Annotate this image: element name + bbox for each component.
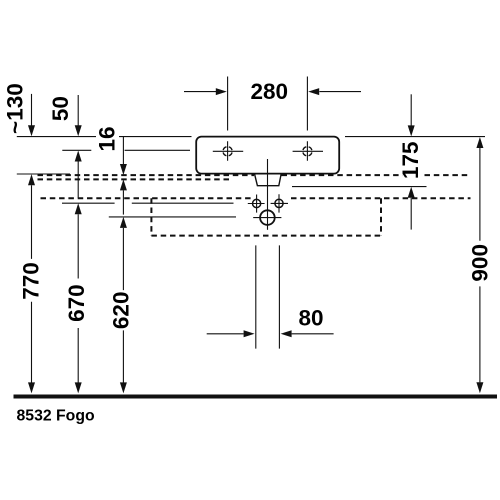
drain outlet circle bbox=[260, 210, 275, 225]
vertical centerline bbox=[267, 159, 269, 230]
670 reference line (small holes level) bbox=[62, 202, 234, 204]
sink bottom extension line left bbox=[17, 173, 70, 175]
dim 80 extension lines bbox=[256, 245, 280, 348]
dim 175 shaft top bbox=[410, 94, 412, 125]
dashed console rectangle bottom edge bbox=[151, 235, 381, 237]
right fixing hole circle bbox=[275, 199, 283, 207]
arrowhead ~130 down bbox=[28, 125, 35, 136]
left tap hole crosshair bbox=[213, 141, 243, 161]
right fixing hole crosshair bbox=[271, 194, 288, 212]
svg-text:80: 80 bbox=[298, 306, 323, 331]
drain stub trapezoid bbox=[255, 174, 282, 186]
dim 16 shaft (down) bbox=[122, 137, 124, 165]
svg-text:620: 620 bbox=[109, 292, 134, 330]
arrowhead ~130 up / 770 top bbox=[28, 174, 35, 185]
top reference line right segment bbox=[345, 136, 485, 138]
svg-text:16: 16 bbox=[95, 126, 120, 151]
svg-text:50: 50 bbox=[48, 96, 73, 121]
svg-text:280: 280 bbox=[251, 79, 289, 104]
arrowhead 50 down bbox=[75, 125, 82, 136]
svg-text:~130: ~130 bbox=[3, 83, 28, 134]
svg-text:8532 Fogo: 8532 Fogo bbox=[17, 408, 95, 425]
arrowhead 175 down bbox=[408, 125, 415, 136]
dim 280 extension lines bbox=[228, 77, 308, 131]
arrowhead 670 up bbox=[75, 203, 82, 214]
dim 900 shaft bbox=[479, 148, 481, 382]
arrowhead 80 left-side (points right) bbox=[244, 330, 255, 337]
arrowhead 900 down bbox=[476, 382, 483, 393]
dim ~130 shaft top bbox=[31, 94, 33, 126]
dashed console rectangle left edge bbox=[150, 198, 152, 235]
svg-text:175: 175 bbox=[398, 141, 423, 179]
left fixing hole crosshair bbox=[248, 195, 265, 213]
dashed countertop top line bbox=[38, 174, 471, 176]
dim 175 lower shaft bbox=[410, 198, 412, 230]
dashed console rectangle right edge bbox=[380, 198, 382, 235]
svg-text:770: 770 bbox=[18, 262, 43, 300]
left fixing hole circle bbox=[253, 199, 261, 207]
dashed countertop bottom line bbox=[38, 178, 230, 180]
dim 620 shaft bbox=[122, 228, 124, 383]
washbasin body outline bbox=[196, 137, 339, 174]
arrowhead 16 up bbox=[120, 179, 127, 190]
dim 16 shaft (up, to drain ref) bbox=[122, 190, 124, 214]
svg-text:670: 670 bbox=[64, 284, 89, 322]
arrowhead 175 up bbox=[408, 187, 415, 198]
arrowhead 620 up bbox=[120, 217, 127, 228]
dim 80 arrow lines bbox=[207, 333, 334, 335]
arrowhead 280 right (points left) bbox=[308, 88, 319, 95]
top reference line (rim level) left segments bbox=[17, 136, 192, 138]
floor line bbox=[14, 395, 498, 399]
tap-hole level reference line segments bbox=[62, 149, 190, 151]
dim 670 shaft bbox=[77, 214, 79, 382]
arrowhead 670 down bbox=[75, 382, 82, 393]
dim ~130/770 shared shaft bbox=[31, 185, 33, 382]
dim 280 arrow lines bbox=[184, 91, 361, 93]
arrowhead 280 left (points right) bbox=[216, 88, 227, 95]
arrowhead 80 right-side (points left) bbox=[281, 330, 292, 337]
arrowhead 50 up bbox=[75, 151, 82, 162]
175 reference line (drain stub bottom) bbox=[292, 186, 427, 188]
arrowhead 770 down bbox=[28, 382, 35, 393]
svg-text:900: 900 bbox=[468, 244, 493, 282]
arrowhead 900 up bbox=[476, 137, 483, 148]
arrowhead 16 down bbox=[120, 164, 127, 175]
right tap hole dashed circle bbox=[303, 147, 312, 156]
dim 50 lower shaft bbox=[77, 162, 79, 198]
dim 50 shaft top bbox=[77, 95, 79, 126]
620 reference line (drain level) bbox=[109, 216, 236, 218]
arrowhead 620 down bbox=[120, 382, 127, 393]
dashed console top line bbox=[41, 197, 471, 199]
right tap hole crosshair bbox=[293, 141, 323, 161]
left tap hole dashed circle bbox=[223, 147, 232, 156]
drain outlet horizontal crosshair bbox=[253, 217, 281, 219]
